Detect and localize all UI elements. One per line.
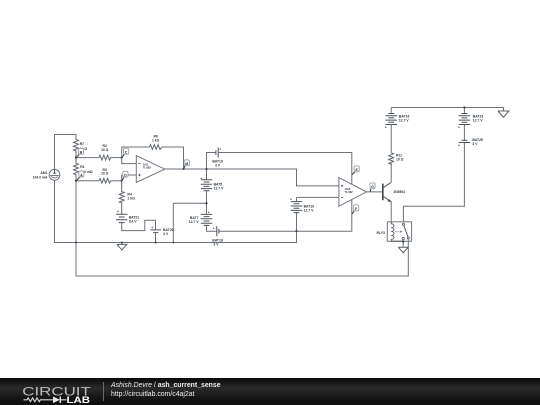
svg-text:+: + bbox=[151, 226, 153, 230]
junction bus ground bbox=[121, 242, 123, 244]
svg-text:AM1: AM1 bbox=[40, 171, 47, 175]
node D junction bbox=[121, 180, 123, 182]
svg-text:3 V: 3 V bbox=[163, 232, 169, 236]
wire BAT26 down to relay bbox=[403, 143, 464, 222]
battery BAT21 bbox=[116, 214, 127, 222]
battery BAT23 bbox=[459, 114, 470, 125]
node flag E on OA6 V+ bbox=[352, 166, 359, 175]
node B junction bbox=[75, 157, 77, 159]
svg-text:TL082: TL082 bbox=[143, 165, 152, 169]
battery BAT5 bbox=[201, 180, 212, 191]
battery BAT20 bbox=[150, 230, 161, 233]
ground relay bbox=[398, 247, 408, 253]
wire node D vertical bbox=[122, 175, 137, 181]
svg-text:12.7 V: 12.7 V bbox=[473, 118, 484, 122]
battery BAT10 bbox=[291, 202, 302, 213]
wire node C to R6 bbox=[122, 146, 150, 148]
resistor R11 bbox=[389, 153, 394, 165]
wire BAT21 to BAT20 hook bbox=[122, 220, 156, 230]
svg-text:12.7 V: 12.7 V bbox=[214, 186, 225, 190]
resistor R6 bbox=[150, 145, 163, 150]
junction bus node A branch bbox=[75, 242, 77, 244]
svg-text:2N3904: 2N3904 bbox=[393, 190, 405, 194]
resistor R7 bbox=[74, 140, 79, 158]
node flag A bbox=[77, 171, 84, 180]
wire BAT18 to junction bbox=[219, 230, 297, 232]
svg-text:+: + bbox=[117, 210, 119, 214]
wire BAT16 top stem bbox=[390, 108, 392, 114]
svg-text:A: A bbox=[80, 173, 83, 177]
battery BAT19 bbox=[216, 148, 218, 158]
svg-text:C: C bbox=[125, 151, 128, 155]
ammeter AM1 bbox=[49, 169, 60, 180]
wire node C vertical bbox=[122, 147, 137, 164]
wire R2 to node C bbox=[111, 157, 122, 159]
svg-text:G: G bbox=[371, 185, 374, 189]
wire R11 to collector bbox=[390, 163, 392, 182]
svg-text:3 V: 3 V bbox=[215, 164, 221, 168]
wire relay coil bottom to ground node bbox=[391, 240, 403, 242]
wire BAT5 to BAT7 junction bbox=[206, 191, 208, 215]
svg-text:12.7 V: 12.7 V bbox=[304, 208, 315, 212]
svg-text:10 Ω: 10 Ω bbox=[101, 148, 109, 152]
svg-text:+: + bbox=[208, 211, 210, 215]
junction V- rail bbox=[295, 230, 297, 232]
label R4 bbox=[127, 193, 135, 201]
junction feedback to output bbox=[183, 168, 185, 170]
ground main bbox=[117, 242, 127, 250]
node flag F on OA6 V- bbox=[352, 205, 359, 214]
wire R6 to node M bbox=[162, 147, 184, 169]
node C junction bbox=[121, 157, 123, 159]
battery BAT16 bbox=[386, 114, 397, 125]
wire BAT20 to bus bbox=[155, 233, 157, 243]
battery BAT7 bbox=[201, 214, 212, 225]
wire BAT10 to OA6 minus input bbox=[297, 196, 339, 198]
resistor R3 bbox=[99, 178, 111, 183]
label R7 bbox=[80, 142, 88, 151]
wire BAT23 stems bbox=[463, 108, 465, 141]
wire BAT19 to OA6 Vplus pin bbox=[218, 153, 352, 185]
footer bar bbox=[0, 378, 540, 405]
wire ammeter top to R7 bbox=[55, 135, 77, 170]
resistor R2 bbox=[99, 155, 111, 160]
relay RLY3 bbox=[377, 222, 412, 242]
label AM1 bbox=[33, 171, 48, 179]
svg-text:+: + bbox=[213, 227, 215, 231]
svg-text:12.7 V: 12.7 V bbox=[189, 220, 200, 224]
label R3 bbox=[101, 168, 109, 176]
CircuitLab logo bbox=[0, 378, 100, 405]
label R2 bbox=[101, 144, 109, 152]
node A junction bbox=[75, 180, 77, 182]
label R1 bbox=[80, 165, 93, 174]
svg-text:RLY3: RLY3 bbox=[377, 231, 385, 235]
node M junction bbox=[205, 168, 207, 170]
svg-text:10 Ω: 10 Ω bbox=[101, 172, 109, 176]
svg-text:3 V: 3 V bbox=[472, 142, 478, 146]
resistor R4 bbox=[119, 181, 124, 214]
wire OA1 output to OA6 plus input bbox=[165, 169, 339, 186]
wire BAT10 stems bbox=[296, 197, 298, 231]
wire emitter to relay coil bbox=[390, 202, 392, 222]
footer title text bbox=[111, 382, 221, 389]
node flag D bbox=[122, 171, 128, 180]
svg-text:TL082: TL082 bbox=[345, 190, 354, 194]
svg-text:R7: R7 bbox=[80, 142, 84, 146]
wire BAT16 to R11 bbox=[390, 125, 392, 153]
wire node M up to BAT19 bbox=[207, 153, 216, 170]
wire ground bus bbox=[55, 242, 297, 244]
wire node A to R3 bbox=[76, 180, 99, 182]
junction bus left tap bbox=[172, 242, 174, 244]
svg-text:+: + bbox=[458, 144, 460, 148]
junction relay ground bbox=[402, 240, 404, 242]
svg-text:1 kΩ: 1 kΩ bbox=[152, 138, 160, 142]
svg-text:+: + bbox=[385, 126, 387, 130]
footer separator bbox=[103, 382, 104, 401]
node flag B bbox=[77, 148, 84, 157]
svg-text:+: + bbox=[200, 176, 202, 180]
node flag M bbox=[184, 160, 190, 169]
label R6 bbox=[152, 135, 160, 143]
wire junction left down to bus bbox=[173, 203, 206, 243]
svg-text:1 kΩ: 1 kΩ bbox=[127, 196, 135, 200]
transistor Q1 2N3904 bbox=[383, 182, 405, 202]
wire top rail to ground bbox=[391, 107, 503, 109]
svg-text:LAB: LAB bbox=[67, 395, 91, 405]
op-amp OA1 bbox=[136, 156, 165, 183]
wire node B to R2 bbox=[76, 157, 99, 159]
wire junction down to bus corner bbox=[296, 231, 298, 243]
junction bus BAT20 bbox=[155, 242, 157, 244]
wire node A down and bottom run to relay bbox=[76, 181, 408, 276]
ground top right bbox=[498, 108, 509, 118]
resistor R1 bbox=[74, 158, 79, 181]
svg-text:+: + bbox=[290, 198, 292, 202]
node flag C bbox=[122, 148, 129, 157]
svg-text:D: D bbox=[124, 174, 127, 178]
wire R3 to node D bbox=[111, 180, 122, 182]
svg-text:B: B bbox=[80, 151, 83, 155]
junction BAT5-BAT7 tap bbox=[205, 202, 207, 204]
svg-text:8.4 V: 8.4 V bbox=[129, 220, 138, 224]
footer url text bbox=[111, 391, 195, 398]
label R11 bbox=[396, 153, 404, 161]
battery BAT26 bbox=[459, 140, 470, 142]
junction top rail BAT23 bbox=[463, 106, 465, 108]
svg-text:3 V: 3 V bbox=[213, 243, 219, 247]
svg-text:+: + bbox=[219, 148, 221, 152]
op-amp OA6 bbox=[339, 178, 367, 207]
svg-text:M: M bbox=[185, 162, 188, 166]
node flag G on OA6 output bbox=[370, 183, 375, 192]
wire BAT7 to BAT18 bbox=[207, 225, 217, 231]
svg-text:104.0 mA: 104.0 mA bbox=[33, 175, 48, 179]
wire relay NC pin to ground bbox=[402, 240, 404, 248]
battery BAT18 bbox=[217, 226, 219, 236]
svg-text:10 Ω: 10 Ω bbox=[396, 158, 404, 162]
wire node M down to BAT5 bbox=[206, 169, 208, 180]
wire OA6 output to transistor base bbox=[367, 191, 383, 193]
svg-text:R1: R1 bbox=[80, 165, 84, 169]
svg-text:+: + bbox=[458, 126, 460, 130]
svg-text:12.7 V: 12.7 V bbox=[399, 118, 410, 122]
wire ammeter bottom to ground bus bbox=[54, 180, 56, 243]
wire junction to OA6 Vminus bbox=[297, 200, 352, 232]
